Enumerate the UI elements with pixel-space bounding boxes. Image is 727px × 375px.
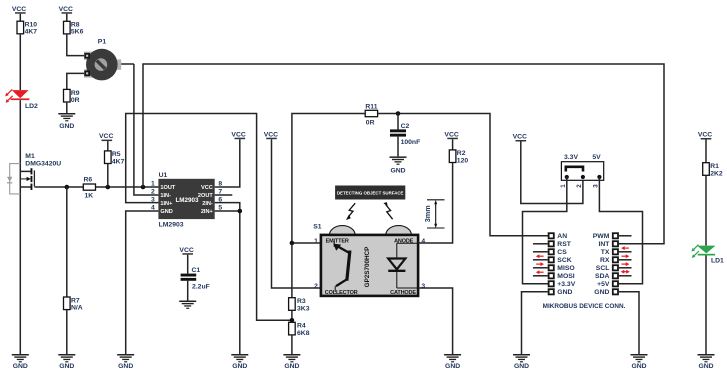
wire 1IN- riser (P1 wiper) bbox=[134, 64, 159, 195]
svg-text:LD2: LD2 bbox=[25, 103, 38, 110]
svg-text:1: 1 bbox=[151, 181, 155, 188]
svg-text:4: 4 bbox=[151, 205, 155, 212]
power VCC (R8 top) bbox=[59, 6, 73, 14]
wire LD2 to GND (through M1 drain/source) bbox=[19, 100, 21, 354]
svg-text:+3.3V: +3.3V bbox=[557, 281, 575, 288]
svg-text:CATHODE: CATHODE bbox=[390, 290, 416, 296]
wire M1 gate to R6 bbox=[34, 186, 83, 188]
reflected light arrow (up zigzag) bbox=[383, 202, 392, 219]
svg-text:3: 3 bbox=[151, 196, 155, 203]
resistor R9 0R bbox=[64, 89, 80, 104]
svg-text:1IN+: 1IN+ bbox=[160, 201, 173, 207]
junction C2 bbox=[396, 111, 401, 116]
wire cathode to GND bbox=[418, 288, 453, 354]
svg-text:PWM: PWM bbox=[593, 233, 610, 240]
svg-text:GND: GND bbox=[59, 363, 74, 370]
wire U1 pin7 stub bbox=[215, 194, 233, 196]
wire 1IN+ route: pin3 left, up, right, down, to R3/R4 node bbox=[126, 114, 292, 321]
svg-text:MIKROBUS DEVICE CONN.: MIKROBUS DEVICE CONN. bbox=[543, 303, 626, 310]
svg-text:R8: R8 bbox=[71, 22, 80, 29]
surface box bbox=[335, 186, 405, 200]
svg-text:DMG3420U: DMG3420U bbox=[25, 161, 61, 168]
ground (C1, no text) bbox=[179, 301, 196, 309]
svg-text:R10: R10 bbox=[25, 21, 38, 28]
wire R11 to AN (via C2 node) bbox=[378, 114, 548, 236]
svg-text:4: 4 bbox=[421, 238, 425, 245]
junction emitter bbox=[290, 241, 295, 246]
svg-text:DETECTING OBJECT SURFACE: DETECTING OBJECT SURFACE bbox=[337, 191, 404, 196]
svg-text:GP2S700HCP: GP2S700HCP bbox=[364, 247, 371, 288]
wire anode to R2 bbox=[418, 163, 453, 244]
svg-text:GND: GND bbox=[59, 123, 74, 130]
svg-text:C1: C1 bbox=[192, 267, 201, 274]
svg-text:R2: R2 bbox=[457, 150, 466, 157]
resistor R7 N/A bbox=[64, 187, 83, 354]
svg-text:3K3: 3K3 bbox=[297, 305, 310, 312]
wire stub PWM bbox=[619, 235, 632, 237]
svg-text:U1: U1 bbox=[159, 172, 168, 179]
resistor R8 5K6 bbox=[64, 21, 84, 35]
svg-text:2: 2 bbox=[576, 184, 583, 188]
svg-text:VCC: VCC bbox=[698, 132, 712, 139]
svg-text:VCC: VCC bbox=[264, 131, 278, 138]
power VCC (R5 top) bbox=[99, 133, 113, 151]
svg-text:AN: AN bbox=[557, 233, 567, 240]
wire R8 to P1 pin top bbox=[67, 34, 84, 56]
svg-text:+5V: +5V bbox=[597, 281, 610, 288]
ground (mikrobus left) bbox=[513, 354, 530, 370]
resistor R1 2K2 bbox=[703, 163, 723, 246]
wire collector VCC down bbox=[264, 131, 321, 288]
svg-text:1IN-: 1IN- bbox=[160, 193, 171, 199]
svg-text:GND: GND bbox=[557, 289, 572, 296]
power VCC (R2 top) bbox=[444, 131, 458, 150]
svg-text:R6: R6 bbox=[84, 177, 93, 184]
emitted light arrow (down-left zigzag) bbox=[346, 203, 355, 220]
arrow SCK in (red, left) bbox=[536, 254, 544, 258]
arrow SCL (red, right) bbox=[622, 262, 630, 266]
wire P1 wiper to 1IN- riser bbox=[121, 63, 134, 65]
svg-text:R1: R1 bbox=[710, 163, 719, 170]
svg-text:1: 1 bbox=[560, 184, 567, 188]
svg-text:R9: R9 bbox=[71, 90, 80, 97]
junction pin5 bbox=[238, 209, 243, 214]
svg-text:GND: GND bbox=[698, 363, 713, 370]
power VCC (mikrobus) bbox=[513, 134, 583, 204]
svg-text:6K8: 6K8 bbox=[297, 330, 310, 337]
arrow SDA (red, both) bbox=[621, 270, 630, 274]
wire stub RST bbox=[533, 243, 548, 245]
ground (cathode) bbox=[444, 354, 461, 370]
svg-text:GND: GND bbox=[118, 363, 133, 370]
power VCC (U1 pin8) bbox=[231, 131, 245, 139]
svg-text:2.2uF: 2.2uF bbox=[192, 283, 210, 290]
wire stub MOSI bbox=[533, 275, 548, 277]
svg-text:VCC: VCC bbox=[444, 131, 458, 138]
wire stub SDA bbox=[619, 275, 632, 277]
ground (R4) bbox=[283, 354, 300, 370]
junction R3/R4 bbox=[290, 318, 295, 323]
svg-text:S1: S1 bbox=[313, 223, 322, 230]
svg-text:1K: 1K bbox=[85, 193, 94, 200]
svg-text:SCK: SCK bbox=[557, 257, 571, 264]
wire right GND pin down bbox=[619, 292, 639, 355]
svg-text:1: 1 bbox=[314, 238, 318, 245]
svg-text:MOSI: MOSI bbox=[557, 273, 574, 280]
sensor S1 bbox=[313, 223, 425, 296]
arrow RX (red, right) bbox=[622, 254, 630, 258]
svg-text:GND: GND bbox=[232, 363, 247, 370]
svg-text:2K2: 2K2 bbox=[710, 170, 723, 177]
svg-text:CS: CS bbox=[557, 249, 567, 256]
wire left GND pin down bbox=[522, 292, 548, 355]
power VCC (C1) bbox=[179, 247, 193, 274]
svg-text:GND: GND bbox=[13, 363, 28, 370]
arrow MISO out (red, right) bbox=[536, 262, 544, 266]
ground (mikrobus right) bbox=[631, 354, 648, 370]
svg-text:100nF: 100nF bbox=[401, 139, 421, 146]
svg-text:LM2903: LM2903 bbox=[159, 222, 184, 229]
svg-text:R4: R4 bbox=[297, 323, 306, 330]
ground (under R9) bbox=[58, 113, 75, 130]
resistor R11 0R (horizontal) bbox=[365, 104, 378, 127]
svg-text:SDA: SDA bbox=[595, 273, 609, 280]
svg-text:2: 2 bbox=[151, 189, 155, 196]
wire emitter to R3 node bbox=[292, 242, 321, 244]
power VCC (R1 top) bbox=[698, 132, 712, 163]
wire U1 pin8 to VCC bbox=[215, 139, 240, 187]
svg-text:2IN-: 2IN- bbox=[202, 201, 213, 207]
wire jumper pin1 to +3.3V bbox=[523, 177, 567, 284]
svg-text:GND: GND bbox=[594, 289, 609, 296]
svg-text:GND: GND bbox=[284, 363, 299, 370]
ground (LD1) bbox=[698, 354, 715, 370]
wire U1 pins 6+5 tied, down to GND bbox=[215, 203, 240, 355]
svg-text:RX: RX bbox=[600, 257, 610, 264]
svg-text:R5: R5 bbox=[112, 151, 121, 158]
ground (R7 bottom) bbox=[58, 354, 75, 370]
wire jumper pin3 to +5V bbox=[599, 177, 642, 284]
svg-text:3.3V: 3.3V bbox=[564, 154, 578, 161]
svg-text:5V: 5V bbox=[592, 154, 601, 161]
svg-text:M1: M1 bbox=[25, 153, 35, 160]
junction R5 bottom bbox=[106, 185, 111, 190]
wire stub MISO bbox=[533, 267, 548, 269]
wire U1 GND pin4 down bbox=[126, 211, 159, 354]
svg-text:VCC: VCC bbox=[59, 6, 73, 13]
svg-text:2IN+: 2IN+ bbox=[201, 209, 214, 215]
svg-text:GND: GND bbox=[390, 167, 405, 174]
svg-text:3mm: 3mm bbox=[423, 205, 432, 222]
svg-text:R7: R7 bbox=[71, 297, 80, 304]
wire stub RX bbox=[619, 259, 632, 261]
resistor R10 4K7 bbox=[17, 21, 37, 35]
svg-text:5K6: 5K6 bbox=[71, 29, 84, 36]
junction gate/R7 bbox=[65, 185, 70, 190]
svg-text:2OUT: 2OUT bbox=[198, 193, 214, 199]
junction 1OUT riser bbox=[141, 185, 146, 190]
svg-text:COLLECTOR: COLLECTOR bbox=[325, 290, 358, 296]
resistor R2 120 bbox=[449, 150, 468, 165]
svg-text:120: 120 bbox=[457, 157, 469, 164]
resistor R3 3K3 bbox=[289, 243, 310, 322]
svg-text:TX: TX bbox=[601, 249, 610, 256]
wire stub TX bbox=[619, 251, 632, 253]
ground (U1 pin4) bbox=[117, 354, 134, 370]
wire VCC to R8 bbox=[66, 14, 68, 22]
arrow MOSI in (red, left) bbox=[536, 270, 544, 274]
svg-text:GND: GND bbox=[160, 209, 172, 215]
wire VCC to R10 bbox=[19, 14, 21, 22]
svg-text:MISO: MISO bbox=[557, 265, 574, 272]
arrow TX (red, left) bbox=[621, 246, 629, 250]
svg-text:1OUT: 1OUT bbox=[160, 185, 176, 191]
ground (C2) bbox=[390, 156, 407, 174]
svg-text:N/A: N/A bbox=[71, 305, 83, 312]
wire R9 to GND bbox=[66, 102, 68, 113]
svg-text:EMITTER: EMITTER bbox=[326, 239, 349, 245]
svg-text:3: 3 bbox=[592, 184, 599, 188]
svg-text:0R: 0R bbox=[366, 119, 375, 126]
svg-text:GND: GND bbox=[631, 363, 646, 370]
capacitor C1 2.2uF bbox=[181, 267, 210, 301]
svg-text:0R: 0R bbox=[71, 97, 80, 104]
wire 1OUT riser + top run to INT bbox=[143, 64, 664, 244]
wire stub SCK bbox=[533, 259, 548, 261]
resistor R4 6K8 bbox=[289, 322, 310, 354]
svg-text:LD1: LD1 bbox=[711, 258, 724, 265]
svg-text:2: 2 bbox=[314, 283, 318, 290]
svg-text:P1: P1 bbox=[98, 39, 107, 46]
wire R10 to LD2 bbox=[19, 34, 21, 90]
dimension 3mm bbox=[423, 200, 445, 228]
svg-text:LM2903: LM2903 bbox=[175, 197, 199, 204]
ground (U1 pins 5/6) bbox=[231, 354, 248, 370]
svg-text:GND: GND bbox=[514, 363, 529, 370]
transistor M1 DMG3420U bbox=[7, 153, 61, 194]
svg-text:4K7: 4K7 bbox=[25, 29, 38, 36]
svg-text:VCC: VCC bbox=[12, 6, 26, 13]
power VCC (R10 top) bbox=[12, 6, 26, 14]
svg-text:INT: INT bbox=[598, 241, 610, 248]
svg-text:VCC: VCC bbox=[513, 134, 527, 141]
wire stub CS bbox=[533, 251, 548, 253]
wire LD1 to GND bbox=[705, 256, 707, 355]
wire P1 pin bottom to R9 bbox=[67, 73, 84, 89]
svg-text:VCC: VCC bbox=[231, 131, 245, 138]
svg-text:VCC: VCC bbox=[99, 133, 113, 140]
wire emitter node up and right to R11 bbox=[292, 114, 365, 244]
svg-text:RST: RST bbox=[557, 241, 571, 248]
wire R6 to U1 pin1 bbox=[96, 186, 159, 188]
resistor R6 1K bbox=[83, 177, 95, 200]
svg-text:R3: R3 bbox=[297, 298, 306, 305]
svg-text:C2: C2 bbox=[401, 123, 410, 130]
LED LD2 (red) bbox=[5, 89, 38, 110]
svg-text:VCC: VCC bbox=[201, 185, 213, 191]
svg-text:R11: R11 bbox=[365, 104, 377, 111]
header left column (AN..GND) bbox=[548, 232, 576, 296]
wire stub SCL bbox=[619, 267, 632, 269]
resistor R5 4K7 bbox=[105, 151, 125, 187]
potentiometer P1 bbox=[84, 39, 121, 81]
header right column (PWM..GND) bbox=[593, 232, 619, 296]
svg-text:GND: GND bbox=[445, 363, 460, 370]
svg-text:SCL: SCL bbox=[596, 265, 610, 272]
svg-text:4K7: 4K7 bbox=[112, 159, 125, 166]
capacitor C2 100nF bbox=[390, 114, 420, 157]
LED LD1 (green) bbox=[692, 245, 725, 265]
svg-text:VCC: VCC bbox=[179, 247, 193, 254]
jumper J 3.3V/5V bbox=[560, 154, 604, 188]
ground (column A bottom) bbox=[12, 354, 29, 370]
